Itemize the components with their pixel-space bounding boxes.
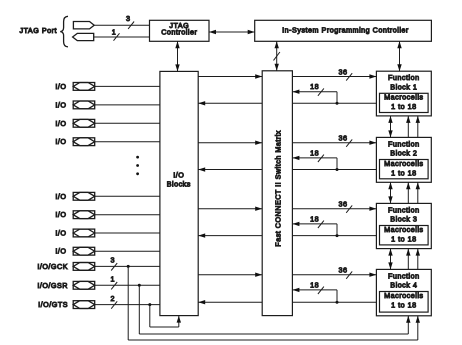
svg-text:I/O: I/O (55, 210, 66, 219)
svg-text:1 to 18: 1 to 18 (391, 168, 416, 177)
svg-text:Controller: Controller (161, 28, 197, 37)
svg-text:18: 18 (310, 280, 319, 289)
svg-text:Macrocells: Macrocells (384, 159, 423, 168)
svg-text:1 to 18: 1 to 18 (391, 102, 416, 111)
svg-text:3: 3 (111, 256, 116, 265)
svg-text:36: 36 (339, 67, 348, 76)
svg-text:I/O: I/O (55, 100, 66, 109)
svg-text:1 to 18: 1 to 18 (391, 300, 416, 309)
svg-text:Function: Function (388, 205, 420, 214)
svg-text:In-System Programming Controll: In-System Programming Controller (282, 26, 409, 35)
svg-text:Function: Function (388, 139, 420, 148)
svg-text:Block 1: Block 1 (390, 82, 417, 91)
svg-text:Macrocells: Macrocells (384, 93, 423, 102)
svg-text:JTAG Port: JTAG Port (19, 26, 57, 35)
svg-text:Block 3: Block 3 (390, 215, 417, 224)
svg-text:18: 18 (310, 214, 319, 223)
svg-text:Fast CONNECT II Switch Matrix: Fast CONNECT II Switch Matrix (274, 130, 283, 247)
svg-text:I/O/GTS: I/O/GTS (38, 300, 68, 309)
svg-text:Blocks: Blocks (167, 180, 191, 189)
svg-text:I/O: I/O (55, 247, 66, 256)
svg-text:I/O: I/O (173, 171, 184, 180)
svg-text:3: 3 (126, 14, 131, 23)
svg-text:I/O: I/O (55, 229, 66, 238)
svg-text:Block 4: Block 4 (390, 281, 417, 290)
svg-text:1: 1 (111, 275, 116, 284)
svg-text:Function: Function (388, 73, 420, 82)
svg-text:36: 36 (339, 200, 348, 209)
svg-text:18: 18 (310, 82, 319, 91)
svg-text:I/O/GSR: I/O/GSR (37, 281, 68, 290)
svg-text:I/O: I/O (55, 82, 66, 91)
svg-text:I/O: I/O (55, 192, 66, 201)
svg-text:Macrocells: Macrocells (384, 225, 423, 234)
svg-text:1: 1 (112, 28, 117, 37)
svg-text:Function: Function (388, 271, 420, 280)
svg-text:I/O/GCK: I/O/GCK (37, 262, 68, 271)
svg-text:36: 36 (339, 266, 348, 275)
svg-text:1 to 18: 1 to 18 (391, 234, 416, 243)
svg-text:36: 36 (339, 134, 348, 143)
svg-text:I/O: I/O (55, 137, 66, 146)
svg-text:Macrocells: Macrocells (384, 291, 423, 300)
svg-text:I/O: I/O (55, 119, 66, 128)
svg-text:18: 18 (310, 148, 319, 157)
svg-text:Block 2: Block 2 (390, 149, 417, 158)
svg-text:2: 2 (111, 294, 116, 303)
